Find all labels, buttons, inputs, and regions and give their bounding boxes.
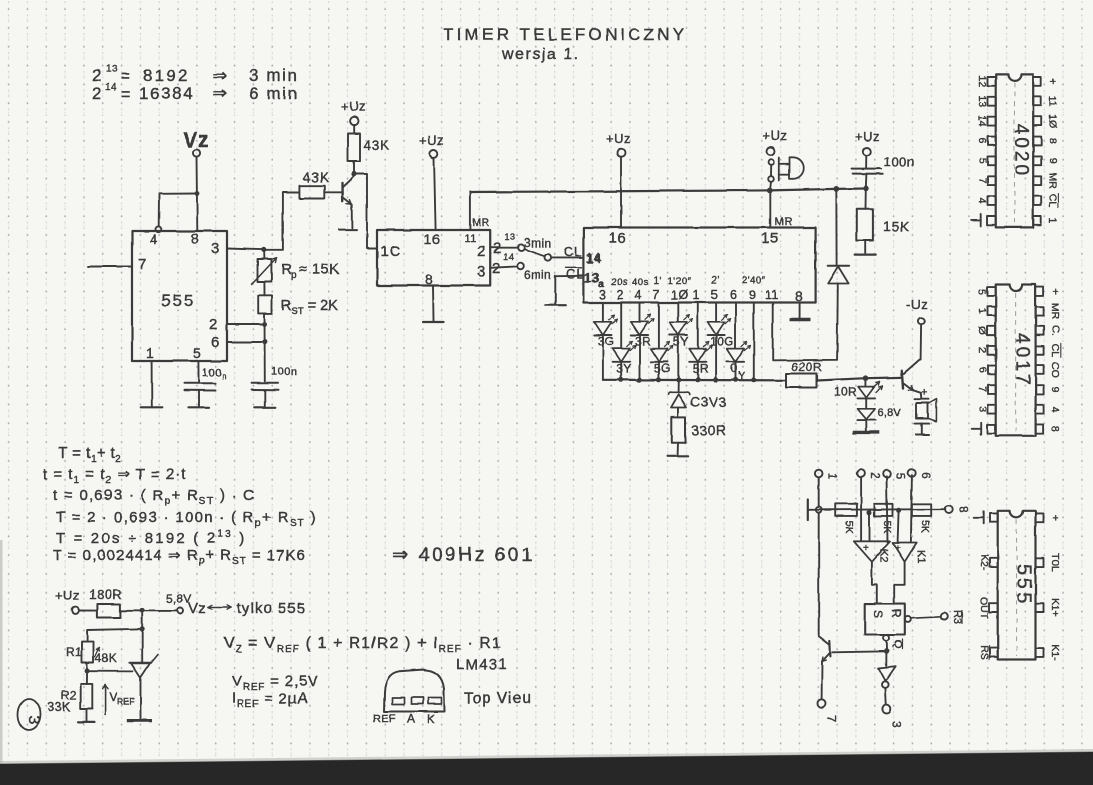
svg-text:7: 7 (138, 256, 147, 273)
svg-text:2: 2 (976, 347, 988, 353)
svg-text:K1+: K1+ (1049, 598, 1061, 617)
svg-text:5: 5 (976, 289, 988, 295)
svg-text:7: 7 (976, 387, 988, 393)
svg-text:2'40″: 2'40″ (742, 275, 766, 286)
svg-text:=: = (121, 86, 131, 103)
svg-text:⇒ 409Hz 601: ⇒ 409Hz 601 (392, 544, 534, 566)
svg-text:5: 5 (894, 473, 906, 479)
svg-text:3: 3 (599, 288, 606, 302)
svg-text:16384: 16384 (139, 84, 194, 103)
svg-text:+: + (1049, 515, 1061, 521)
svg-text:6: 6 (730, 288, 737, 302)
svg-text:CL: CL (1049, 344, 1061, 358)
svg-text:K: K (427, 712, 436, 726)
svg-text:9: 9 (1049, 387, 1061, 393)
svg-text:14: 14 (105, 82, 117, 93)
svg-text:16: 16 (424, 231, 441, 247)
svg-text:3: 3 (25, 716, 42, 725)
svg-text:8: 8 (957, 506, 971, 513)
svg-text:6: 6 (976, 367, 988, 373)
svg-text:1: 1 (693, 288, 700, 302)
svg-text:K1: K1 (915, 550, 927, 563)
svg-text:3: 3 (890, 721, 904, 728)
svg-text:2: 2 (617, 288, 624, 302)
svg-text:6: 6 (919, 473, 931, 479)
svg-text:Vz: Vz (188, 600, 206, 617)
svg-text:+Uz: +Uz (606, 131, 631, 146)
svg-text:13: 13 (106, 64, 118, 75)
svg-text:CL: CL (1047, 194, 1059, 208)
svg-text:3Y: 3Y (616, 361, 632, 375)
svg-text:Top Vieu: Top Vieu (464, 690, 532, 707)
svg-text:3min: 3min (524, 236, 552, 250)
svg-text:100: 100 (202, 367, 222, 379)
svg-text:14: 14 (586, 250, 601, 265)
svg-text:5K: 5K (843, 521, 855, 534)
svg-text:≈ 15K: ≈ 15K (299, 262, 339, 278)
svg-text:20s: 20s (611, 277, 628, 288)
svg-text:-Uz: -Uz (906, 297, 928, 312)
svg-text:OUT: OUT (978, 597, 990, 620)
svg-text:48K: 48K (95, 651, 117, 665)
svg-text:+Uz: +Uz (55, 588, 79, 603)
svg-text:13: 13 (976, 95, 988, 107)
svg-text:10R: 10R (834, 385, 857, 399)
svg-text:5R: 5R (693, 361, 709, 375)
svg-text:100n: 100n (884, 154, 914, 169)
svg-text:1C: 1C (380, 243, 401, 260)
svg-text:⇒: ⇒ (213, 66, 228, 85)
svg-text:MR: MR (472, 217, 490, 229)
svg-text:8: 8 (795, 288, 803, 304)
svg-text:2: 2 (493, 240, 502, 257)
svg-text:C.: C. (1049, 325, 1061, 336)
svg-text:4: 4 (1049, 406, 1061, 412)
svg-text:6: 6 (976, 138, 988, 144)
svg-text:+: + (921, 387, 928, 399)
svg-text:11: 11 (464, 233, 476, 245)
svg-text:2': 2' (711, 276, 719, 287)
svg-text:LM431: LM431 (456, 656, 508, 673)
svg-text:5: 5 (193, 345, 201, 361)
svg-text:1: 1 (976, 308, 988, 314)
svg-text:3: 3 (976, 406, 988, 412)
svg-text:1'20″: 1'20″ (668, 276, 692, 287)
svg-text:3G: 3G (598, 335, 615, 349)
svg-text:5: 5 (711, 288, 718, 302)
svg-text:4: 4 (635, 288, 642, 302)
svg-text:+Uz: +Uz (419, 133, 444, 148)
svg-text:+: + (1049, 288, 1061, 294)
svg-text:K1-: K1- (1049, 644, 1061, 661)
svg-text:p: p (291, 270, 297, 281)
svg-text:MR: MR (775, 216, 793, 228)
svg-text:2: 2 (209, 316, 218, 333)
svg-text:7: 7 (825, 716, 839, 723)
svg-text:wersja 1.: wersja 1. (501, 46, 580, 63)
svg-text:1': 1' (654, 276, 662, 287)
svg-text:40s: 40s (632, 277, 649, 288)
svg-text:tylko 555: tylko 555 (237, 600, 306, 617)
svg-text:3: 3 (477, 263, 486, 280)
svg-text:K2: K2 (878, 549, 890, 562)
svg-text:8: 8 (1049, 426, 1061, 432)
svg-text:MR: MR (1049, 303, 1061, 320)
svg-text:43K: 43K (303, 170, 329, 185)
svg-text:5Y: 5Y (673, 335, 689, 349)
svg-text:15: 15 (761, 230, 779, 247)
svg-text:CL: CL (566, 267, 585, 282)
svg-text:620R: 620R (791, 360, 822, 374)
svg-text:10G: 10G (710, 335, 734, 349)
svg-text:4: 4 (150, 231, 158, 247)
svg-text:2: 2 (92, 84, 102, 103)
svg-text:1Ø: 1Ø (1047, 114, 1059, 128)
svg-text:TIMER TELEFONICZNY: TIMER TELEFONICZNY (443, 25, 687, 44)
svg-text:1: 1 (146, 345, 154, 361)
svg-text:7: 7 (653, 288, 660, 302)
svg-text:555: 555 (1013, 564, 1035, 606)
svg-text:8: 8 (1047, 138, 1059, 144)
svg-text:7: 7 (976, 178, 988, 184)
svg-text:3: 3 (211, 240, 220, 257)
svg-text:4: 4 (976, 198, 988, 204)
svg-text:2: 2 (92, 66, 102, 85)
svg-text:2: 2 (477, 243, 486, 260)
svg-text:1: 1 (1047, 217, 1059, 223)
svg-text:6min: 6min (524, 268, 552, 282)
svg-text:5G: 5G (654, 361, 671, 375)
svg-text:8192: 8192 (143, 66, 190, 85)
svg-text:2: 2 (868, 473, 880, 479)
svg-text:14: 14 (504, 252, 515, 262)
svg-text:6: 6 (211, 334, 220, 351)
svg-text:6,8V: 6,8V (878, 407, 902, 419)
svg-text:R: R (890, 609, 904, 618)
svg-text:3 min: 3 min (249, 66, 299, 85)
svg-text:100n: 100n (271, 366, 297, 378)
svg-text:+Uz: +Uz (855, 129, 880, 144)
svg-text:+Uz: +Uz (762, 128, 787, 143)
svg-text:T0L: T0L (1049, 554, 1061, 572)
svg-text:13: 13 (505, 232, 516, 242)
svg-text:Q: Q (892, 640, 904, 649)
svg-text:6 min: 6 min (249, 84, 299, 103)
svg-text:33K: 33K (47, 699, 71, 714)
svg-text:CO: CO (1049, 362, 1061, 378)
svg-text:14: 14 (976, 115, 988, 127)
svg-text:8: 8 (191, 230, 199, 246)
svg-text:16: 16 (609, 230, 627, 247)
svg-text:330R: 330R (691, 422, 726, 438)
svg-text:5K: 5K (919, 521, 931, 534)
svg-text:5: 5 (976, 158, 988, 164)
svg-text:Ø: Ø (976, 327, 988, 335)
svg-text:4020: 4020 (1010, 124, 1031, 178)
svg-text:1Ø: 1Ø (671, 288, 689, 302)
svg-text:R1: R1 (66, 645, 82, 659)
svg-text:+: + (863, 543, 869, 554)
svg-text:+: + (1047, 78, 1059, 84)
svg-text:43K: 43K (364, 138, 390, 153)
svg-text:3R: 3R (635, 335, 651, 349)
svg-text:S: S (871, 610, 885, 618)
svg-text:4017: 4017 (1012, 333, 1033, 387)
svg-text:1: 1 (826, 473, 838, 479)
svg-text:11: 11 (1047, 96, 1059, 107)
svg-text:n: n (222, 372, 227, 381)
svg-text:2: 2 (492, 260, 501, 277)
svg-text:9: 9 (1047, 158, 1059, 164)
svg-text:+Uz: +Uz (341, 99, 366, 114)
svg-text:RS: RS (978, 645, 990, 660)
svg-text:CL: CL (564, 244, 583, 259)
svg-text:+: + (895, 543, 901, 554)
svg-text:13: 13 (584, 271, 599, 286)
svg-text:12: 12 (976, 76, 988, 88)
svg-text:A: A (407, 712, 416, 726)
svg-text:555: 555 (161, 291, 195, 310)
svg-text:9: 9 (749, 288, 756, 302)
svg-text:15K: 15K (883, 218, 910, 234)
svg-text:⇒: ⇒ (213, 84, 228, 103)
svg-text:REF: REF (373, 713, 396, 725)
svg-text:=: = (121, 68, 131, 85)
svg-text:MR: MR (1047, 173, 1059, 190)
svg-text:8: 8 (425, 271, 433, 287)
svg-text:C3V3: C3V3 (690, 394, 727, 410)
svg-text:11: 11 (765, 288, 779, 302)
svg-text:180R: 180R (89, 587, 122, 602)
svg-text:K2-: K2- (978, 555, 990, 572)
svg-text:R3: R3 (951, 610, 963, 624)
